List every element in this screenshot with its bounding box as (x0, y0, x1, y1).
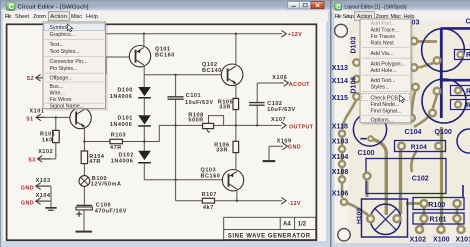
svg-text:Add Text...: Add Text... (371, 78, 396, 84)
svg-text:X101: X101 (456, 235, 470, 243)
svg-text:Add Via...: Add Via... (371, 51, 394, 57)
svg-text:Pin Styles...: Pin Styles... (50, 66, 78, 72)
svg-text:File: File (335, 14, 342, 20)
svg-text:C102: C102 (267, 101, 282, 107)
svg-text:Wire...: Wire... (50, 91, 65, 97)
svg-text:Misc: Misc (71, 14, 82, 20)
svg-text:Q102: Q102 (202, 62, 218, 68)
svg-text:Setup: Setup (343, 14, 355, 20)
svg-text:Offpage...: Offpage... (50, 76, 73, 82)
svg-text:A4: A4 (283, 222, 291, 228)
svg-text:BC140: BC140 (202, 68, 222, 74)
svg-text:X114: X114 (332, 77, 348, 85)
svg-text:+12V: +12V (288, 32, 302, 38)
svg-text:Text Styles...: Text Styles... (50, 49, 80, 55)
svg-text:C101: C101 (186, 93, 201, 99)
svg-text:-12V: -12V (288, 201, 301, 207)
svg-text:R103: R103 (111, 132, 126, 138)
svg-text:X100: X100 (433, 235, 450, 243)
svg-text:Sheet: Sheet (15, 14, 29, 20)
svg-text:D106: D106 (350, 77, 358, 94)
svg-text:1N4006: 1N4006 (110, 94, 133, 100)
svg-text:R100: R100 (428, 201, 445, 209)
svg-text:X107: X107 (271, 117, 286, 123)
svg-text:X118: X118 (332, 122, 348, 130)
svg-text:X106: X106 (272, 75, 287, 81)
svg-text:Find Signal...: Find Signal... (371, 109, 402, 115)
svg-text:X113: X113 (332, 64, 348, 72)
svg-text:R101: R101 (430, 216, 447, 224)
svg-text:X104: X104 (36, 193, 51, 199)
svg-text:47R: 47R (89, 159, 101, 165)
svg-text:S3: S3 (28, 157, 35, 163)
svg-text:X103: X103 (332, 138, 349, 146)
svg-text:Help: Help (86, 14, 98, 20)
svg-text:X115: X115 (332, 94, 348, 102)
svg-text:Add Part...: Add Part... (371, 21, 396, 27)
svg-text:GND: GND (288, 144, 301, 150)
svg-text:D102: D102 (119, 152, 134, 158)
svg-text:R104: R104 (411, 144, 427, 151)
svg-text:33R: 33R (216, 147, 228, 153)
svg-text:D100: D100 (118, 88, 133, 94)
svg-text:1k0: 1k0 (42, 138, 53, 144)
svg-text:1N4006: 1N4006 (111, 159, 134, 165)
svg-text:X106: X106 (332, 189, 349, 197)
svg-text:H100: H100 (356, 208, 363, 224)
svg-text:SINE WAVE GENERATOR: SINE WAVE GENERATOR (228, 233, 311, 239)
svg-text:33R: 33R (219, 104, 231, 110)
svg-text:X103: X103 (36, 178, 51, 184)
svg-text:S1: S1 (26, 116, 33, 122)
svg-text:D103: D103 (350, 36, 358, 53)
svg-text:R107: R107 (202, 192, 217, 198)
svg-text:C: C (9, 2, 15, 11)
svg-text:C1: C1 (466, 18, 470, 26)
svg-text:1/2: 1/2 (298, 222, 307, 228)
svg-text:Connector Pin...: Connector Pin... (50, 59, 88, 65)
svg-text:Fix Traces: Fix Traces (371, 34, 396, 40)
svg-text:ACOUT: ACOUT (289, 82, 310, 88)
svg-text:500R: 500R (188, 117, 203, 123)
svg-text:R: R (466, 51, 470, 59)
svg-text:X102: X102 (38, 149, 53, 155)
svg-text:Find Node...: Find Node... (371, 102, 400, 108)
svg-text:GND: GND (21, 200, 34, 206)
svg-text:C: C (336, 4, 341, 11)
svg-text:X104: X104 (332, 153, 349, 161)
svg-text:Add Trace...: Add Trace... (371, 28, 400, 34)
svg-text:File: File (5, 14, 12, 20)
svg-text:12V/50mA: 12V/50mA (91, 181, 122, 187)
svg-text:Q100: Q100 (435, 128, 452, 136)
svg-text:Bus...: Bus... (50, 84, 64, 90)
svg-text:10uF/63V: 10uF/63V (267, 107, 296, 113)
svg-text:BC160: BC160 (201, 173, 221, 179)
svg-text:Options...: Options... (371, 117, 394, 123)
svg-text:Circuit Editor - [SWGsch]: Circuit Editor - [SWGsch] (18, 5, 89, 11)
svg-text:Layout Editor [1] - [SWGpcb]: Layout Editor [1] - [SWGpcb] (345, 5, 407, 11)
svg-text:C104: C104 (405, 128, 422, 136)
svg-text:Signal Name...: Signal Name... (50, 104, 85, 110)
svg-text:R: R (466, 88, 470, 96)
svg-text:X108: X108 (332, 168, 349, 176)
svg-text:Q101: Q101 (155, 47, 171, 53)
svg-text:Add Hole...: Add Hole... (371, 68, 397, 74)
svg-text:GND: GND (21, 185, 34, 191)
svg-text:4k7: 4k7 (203, 205, 214, 211)
svg-text:Add Polygon...: Add Polygon... (371, 62, 405, 68)
svg-text:OUTPUT: OUTPUT (289, 124, 314, 130)
svg-text:10uF/63V: 10uF/63V (185, 100, 214, 106)
svg-text:S2: S2 (27, 76, 34, 82)
svg-text:Text...: Text... (50, 42, 64, 48)
svg-text:D101: D101 (118, 116, 133, 122)
svg-text:470uF/16V: 470uF/16V (95, 208, 127, 214)
svg-text:X102: X102 (410, 235, 427, 243)
svg-text:Graphics...: Graphics... (50, 32, 76, 38)
svg-text:Action: Action (50, 14, 67, 20)
svg-text:Rats Nest: Rats Nest (371, 41, 395, 47)
svg-text:Styles...: Styles... (371, 85, 390, 91)
svg-text:BC160: BC160 (155, 53, 175, 59)
svg-text:47R: 47R (110, 145, 122, 151)
svg-text:Zoom: Zoom (33, 14, 46, 20)
svg-text:Fix Wires: Fix Wires (50, 97, 72, 103)
svg-text:1N4006: 1N4006 (110, 122, 133, 128)
svg-text:C102: C102 (412, 174, 429, 182)
svg-text:X101: X101 (29, 109, 44, 115)
svg-text:R: R (466, 102, 470, 110)
svg-text:C100: C100 (358, 149, 375, 157)
